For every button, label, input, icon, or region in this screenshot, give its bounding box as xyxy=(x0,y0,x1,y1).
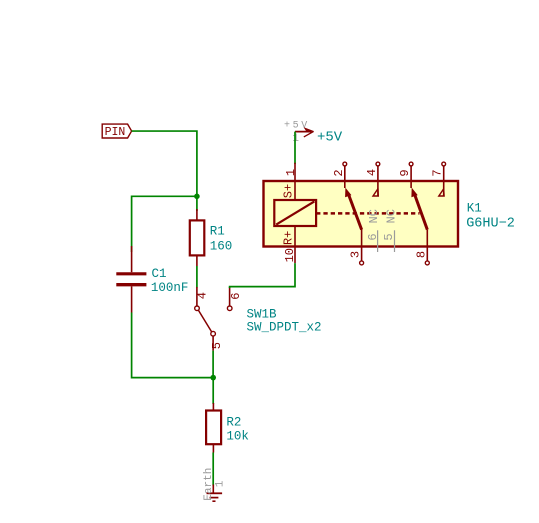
NO marker triangle 1 xyxy=(373,189,378,196)
lever contact 2 xyxy=(414,193,427,230)
svg-text:S+: S+ xyxy=(281,184,295,198)
hidden pin NC 6 xyxy=(377,230,379,252)
svg-text:R2: R2 xyxy=(226,415,241,429)
wire relay pin10 to SW pin 6 xyxy=(230,263,295,288)
svg-text:Earth: Earth xyxy=(203,468,215,501)
wire +5V to relay pin 1 xyxy=(294,132,296,164)
svg-text:8: 8 xyxy=(414,251,428,258)
pin 3 xyxy=(361,230,363,261)
svg-text:G6HU−2: G6HU−2 xyxy=(466,216,515,231)
node junction 1 xyxy=(194,194,200,200)
svg-text:6: 6 xyxy=(366,233,380,240)
svg-text:5: 5 xyxy=(210,342,224,349)
coil xyxy=(274,200,316,226)
power +5V xyxy=(284,120,343,145)
svg-text:SW1B: SW1B xyxy=(247,307,278,321)
switch SW1B xyxy=(195,287,322,351)
wire junction to left branch xyxy=(132,196,197,252)
pin 5 common xyxy=(211,331,216,336)
svg-text:160: 160 xyxy=(210,239,233,253)
svg-text:NC: NC xyxy=(384,209,398,223)
svg-text:R1: R1 xyxy=(210,225,225,239)
svg-text:9: 9 xyxy=(398,169,412,176)
pin 7 xyxy=(442,162,446,166)
lever contact 1 xyxy=(348,193,362,230)
pin 10 xyxy=(294,247,296,264)
relay K1 xyxy=(264,162,515,265)
svg-text:R+: R+ xyxy=(281,231,295,245)
NO marker triangle 2 xyxy=(439,189,444,196)
svg-text:10: 10 xyxy=(283,248,297,262)
svg-text:1: 1 xyxy=(284,169,298,176)
node junction 2 xyxy=(210,375,216,381)
svg-text:+5V: +5V xyxy=(284,120,310,131)
svg-text:1: 1 xyxy=(292,133,299,145)
svg-text:6: 6 xyxy=(229,293,243,300)
pin 1 (K1) xyxy=(294,163,296,181)
wire PIN label to corner xyxy=(132,131,197,196)
svg-text:+5V: +5V xyxy=(317,130,343,146)
resistor R2 xyxy=(206,403,249,453)
svg-text:3: 3 xyxy=(348,251,362,258)
svg-text:SW_DPDT_x2: SW_DPDT_x2 xyxy=(247,320,322,334)
svg-text:NC: NC xyxy=(367,209,381,223)
svg-text:10k: 10k xyxy=(226,429,249,443)
pin 8 xyxy=(426,230,428,261)
pin 4 xyxy=(376,162,380,166)
wire junction1 to R1 xyxy=(196,196,198,211)
ground Earth xyxy=(203,468,226,502)
svg-text:4: 4 xyxy=(195,292,209,299)
svg-text:7: 7 xyxy=(431,169,445,176)
body xyxy=(264,181,459,247)
hierarchical label PIN xyxy=(102,124,131,139)
dashed coupling line xyxy=(316,212,419,215)
lever xyxy=(199,310,212,331)
svg-text:K1: K1 xyxy=(467,201,482,215)
pin 9 xyxy=(409,162,413,166)
svg-text:2: 2 xyxy=(332,169,346,176)
pin 2 xyxy=(343,162,347,166)
svg-text:PIN: PIN xyxy=(105,126,126,139)
resistor R1 xyxy=(190,209,232,266)
svg-text:4: 4 xyxy=(365,169,379,176)
wire R1 to SW pin 4 xyxy=(196,266,198,288)
pin10 internal lead xyxy=(294,226,296,247)
pin1 internal lead xyxy=(294,181,296,200)
wire C1 to junction 2 xyxy=(132,313,214,378)
wire junction2 to R2 xyxy=(212,378,214,404)
svg-text:C1: C1 xyxy=(152,267,167,281)
hidden pin NC 5 xyxy=(394,230,396,252)
wire SW pin5 to junction 2 xyxy=(212,351,214,378)
svg-text:5: 5 xyxy=(382,233,396,240)
wire R2 to ground xyxy=(212,453,214,486)
capacitor C1 xyxy=(116,246,188,313)
svg-text:1: 1 xyxy=(214,480,226,487)
pin 4 xyxy=(196,287,198,306)
svg-text:100nF: 100nF xyxy=(151,281,189,295)
pin 6 xyxy=(229,287,231,306)
